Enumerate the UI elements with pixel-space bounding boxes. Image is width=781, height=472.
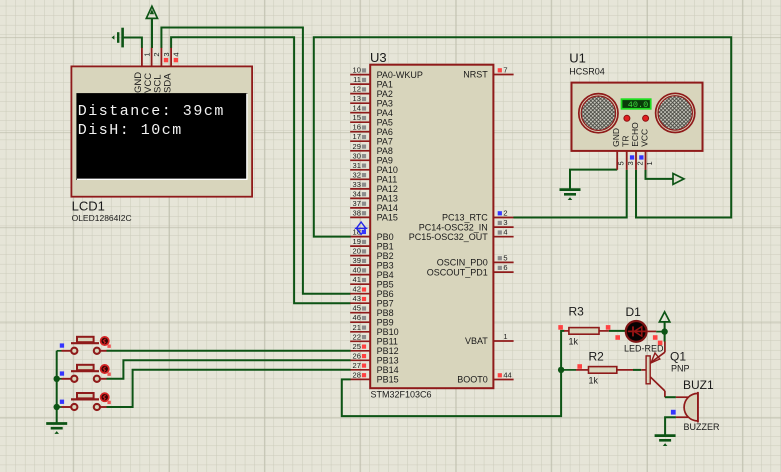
transistor Q1 (PNP) — [641, 342, 665, 398]
svg-text:PB12: PB12 — [377, 346, 399, 356]
LCD1 pin 2 VCC — [143, 48, 161, 93]
U1 right transducer — [656, 93, 695, 132]
U3 pin 32 (PA11) — [350, 170, 397, 184]
svg-text:3: 3 — [626, 161, 635, 165]
svg-text:PC15-OSC32_OUT: PC15-OSC32_OUT — [409, 232, 489, 242]
wire: LCD pin1 GND to ground symbol — [123, 38, 142, 49]
svg-text:PA7: PA7 — [377, 136, 393, 146]
U3 pin 39 (PB3) — [350, 256, 393, 270]
junction: button 2 tap on rail — [54, 376, 60, 382]
logic state square (BUZ1 input) — [671, 410, 676, 415]
power symbol +V (above D1/Q1 junction) — [659, 312, 669, 332]
svg-text:34: 34 — [353, 189, 361, 198]
svg-text:19: 19 — [353, 237, 361, 246]
svg-text:2: 2 — [635, 161, 644, 165]
svg-text:2: 2 — [152, 52, 161, 56]
svg-text:BUZ1: BUZ1 — [683, 378, 714, 392]
svg-text:32: 32 — [353, 170, 361, 179]
svg-text:1: 1 — [143, 52, 152, 56]
svg-text:29: 29 — [353, 142, 361, 151]
svg-text:D1: D1 — [626, 305, 642, 319]
U3 pin 7 (NRST) — [463, 66, 513, 80]
wire: button 1 to U3 PB12 (pin 25) — [107, 350, 351, 352]
svg-text:PB7: PB7 — [377, 298, 394, 308]
svg-text:40: 40 — [353, 266, 361, 275]
U3 pin 45 (PB8) — [350, 304, 393, 318]
svg-text:15: 15 — [353, 113, 361, 122]
svg-text:PA14: PA14 — [377, 203, 398, 213]
svg-text:PA5: PA5 — [377, 117, 393, 127]
svg-text:PA12: PA12 — [377, 184, 398, 194]
svg-text:PA6: PA6 — [377, 127, 393, 137]
U3 pin 46 (PB9) — [350, 313, 393, 327]
U3 pin 19 (PB1) — [350, 237, 393, 251]
svg-text:PB5: PB5 — [377, 279, 394, 289]
logic state square (R3 left) — [558, 325, 563, 330]
push button 3 — [57, 393, 111, 410]
logic state square (D1 left) — [615, 335, 620, 340]
svg-text:PB10: PB10 — [377, 327, 399, 337]
U3 pin 37 (PA14) — [350, 199, 398, 213]
U3 pin 25 (PB12) — [350, 342, 398, 356]
svg-text:3: 3 — [503, 218, 507, 227]
wire: HCSR04 VCC to power arrow — [646, 170, 674, 179]
svg-text:PA0-WKUP: PA0-WKUP — [377, 70, 423, 80]
svg-text:PNP: PNP — [671, 364, 690, 374]
svg-text:14: 14 — [353, 104, 361, 113]
svg-text:OLED12864I2C: OLED12864I2C — [72, 213, 132, 223]
U3 pin 2 (PC13_RTC) — [442, 209, 514, 223]
wire SCL: LCD pin3 to U3 PB6 (pin 42) — [161, 28, 350, 294]
svg-text:10: 10 — [353, 66, 361, 75]
junction: D1 / power / Q1 emitter — [661, 328, 667, 334]
ground (below HCSR04) — [560, 190, 581, 200]
svg-text:5: 5 — [503, 253, 507, 262]
svg-text:5: 5 — [617, 161, 626, 165]
svg-text:PA11: PA11 — [377, 175, 398, 185]
U3 pin 3 (PC14-OSC32_IN) — [419, 218, 514, 232]
svg-text:PB11: PB11 — [377, 337, 398, 347]
U3 pin 13 (PA3) — [350, 94, 393, 108]
svg-text:1: 1 — [645, 161, 654, 165]
wire SDA: LCD pin4 to U3 PB7 (pin 43) — [171, 37, 351, 303]
svg-text:27: 27 — [353, 361, 361, 370]
svg-text:PA1: PA1 — [377, 79, 393, 89]
svg-text:PB6: PB6 — [377, 289, 394, 299]
microcontroller U3 STM32F103C6 body — [370, 65, 493, 389]
svg-text:1k: 1k — [589, 376, 599, 386]
U3 pin 42 (PB6) — [350, 285, 393, 299]
svg-text:Distance: 39cm: Distance: 39cm — [78, 103, 225, 120]
junction: R2 tap on rail — [558, 367, 564, 373]
svg-text:43: 43 — [353, 294, 361, 303]
U3 pin 10 (PA0-WKUP) — [350, 66, 423, 80]
wire: R3 to D1 — [609, 330, 625, 332]
svg-text:22: 22 — [353, 332, 361, 341]
U3 pin 26 (PB13) — [350, 351, 398, 365]
U3 pin 14 (PA4) — [350, 104, 393, 118]
svg-text:PA9: PA9 — [377, 156, 393, 166]
U3 pin 1 (VBAT) — [465, 332, 514, 346]
svg-text:GND: GND — [611, 128, 621, 147]
wire ECHO net: HCSR04 ECHO to U3 PB0 (pin 18) — [314, 37, 731, 236]
svg-text:37: 37 — [353, 199, 361, 208]
svg-text:46: 46 — [353, 313, 361, 322]
U3 pin 33 (PA12) — [350, 180, 398, 194]
svg-text:PB13: PB13 — [377, 356, 399, 366]
wire: R2 to Q1 base — [633, 369, 641, 371]
U3 pin 11 (PA1) — [350, 75, 393, 89]
svg-text:2: 2 — [503, 209, 507, 218]
U3 pin 27 (PB14) — [350, 361, 398, 375]
svg-text:STM32F103C6: STM32F103C6 — [371, 390, 432, 400]
buzzer BUZ1 — [676, 392, 698, 423]
node marker (blue probe) on PB0 net — [355, 222, 368, 234]
ultrasonic sensor U1 HCSR04 body — [572, 83, 703, 151]
svg-text:3: 3 — [162, 52, 171, 56]
svg-text:13: 13 — [353, 94, 361, 103]
svg-text:PB1: PB1 — [377, 241, 394, 251]
svg-text:PB14: PB14 — [377, 365, 399, 375]
U3 pin 43 (PB7) — [350, 294, 393, 308]
svg-text:40.0: 40.0 — [628, 100, 648, 110]
LED D1 (LED-RED) — [626, 321, 647, 342]
svg-text:DisH: 10cm: DisH: 10cm — [78, 122, 183, 139]
svg-text:7: 7 — [503, 66, 507, 75]
ground (below BUZ1) — [655, 436, 676, 446]
svg-text:SDA: SDA — [162, 73, 173, 93]
svg-text:U1: U1 — [569, 51, 586, 66]
svg-text:R3: R3 — [569, 305, 585, 319]
wire: Q1 emitter to junction — [664, 332, 666, 342]
svg-text:33: 33 — [353, 180, 361, 189]
U3 pin 15 (PA5) — [350, 113, 393, 127]
wire: common button rail to ground — [56, 351, 58, 423]
svg-text:PC14-OSC32_IN: PC14-OSC32_IN — [419, 222, 488, 232]
logic state square (D1 lower right) — [658, 341, 663, 346]
U1 indicator LED right — [643, 115, 649, 121]
svg-text:1k: 1k — [569, 337, 579, 347]
svg-text:R2: R2 — [589, 350, 605, 364]
svg-text:16: 16 — [353, 123, 361, 132]
svg-text:21: 21 — [353, 323, 361, 332]
junction: button 3 tap on rail — [54, 404, 60, 410]
svg-text:BUZZER: BUZZER — [684, 422, 721, 432]
svg-text:HCSR04: HCSR04 — [569, 67, 605, 77]
svg-text:Q1: Q1 — [670, 350, 686, 364]
svg-text:PA10: PA10 — [377, 165, 398, 175]
U3 pin 16 (PA6) — [350, 123, 393, 137]
svg-text:OSCIN_PD0: OSCIN_PD0 — [437, 258, 488, 268]
U1 pin 3 (TR) — [621, 135, 635, 169]
svg-text:PA3: PA3 — [377, 98, 393, 108]
svg-text:U3: U3 — [370, 50, 387, 65]
OLED display LCD1 body — [71, 66, 252, 196]
power symbol +V (top, LCD VCC) — [146, 6, 157, 48]
svg-text:31: 31 — [353, 161, 361, 170]
ground (below buttons) — [46, 424, 67, 434]
U3 pin 38 (PA15) — [350, 208, 398, 222]
svg-text:NRST: NRST — [463, 70, 488, 80]
U3 pin 28 (PB15) — [350, 370, 398, 384]
U3 pin 30 (PA9) — [350, 151, 393, 165]
logic state square (D1 right) — [653, 335, 658, 340]
svg-text:12: 12 — [353, 85, 361, 94]
svg-text:45: 45 — [353, 304, 361, 313]
svg-text:6: 6 — [503, 263, 507, 272]
svg-text:28: 28 — [353, 370, 361, 379]
U3 pin 17 (PA7) — [350, 132, 393, 146]
U1 indicator LED left — [624, 115, 630, 121]
wire: D1 to power junction — [647, 330, 665, 332]
svg-text:44: 44 — [503, 371, 511, 380]
U3 pin 29 (PA8) — [350, 142, 393, 156]
svg-text:20: 20 — [353, 247, 361, 256]
wire: button 3 to U3 PB14 (pin 27) — [107, 370, 351, 407]
U3 pin 21 (PB10) — [350, 323, 398, 337]
resistor R3 — [564, 328, 609, 335]
svg-text:30: 30 — [353, 151, 361, 160]
wire TRIG net: U3 PC13_RTC (pin 2) to HCSR04 TR — [513, 170, 626, 218]
svg-text:ECHO: ECHO — [630, 122, 640, 147]
svg-text:42: 42 — [353, 285, 361, 294]
U3 pin 18 (PB0) — [350, 228, 393, 242]
wire: BUZ1 to ground — [665, 417, 676, 434]
svg-text:25: 25 — [353, 342, 361, 351]
svg-text:41: 41 — [353, 275, 361, 284]
U3 pin 20 (PB2) — [350, 247, 393, 261]
svg-text:BOOT0: BOOT0 — [457, 375, 488, 385]
push button 2 — [57, 365, 111, 382]
U1 pin 1 (VCC) — [640, 129, 654, 170]
svg-text:PB0: PB0 — [377, 232, 394, 242]
wire: button 2 to U3 PB13 (pin 26) — [107, 360, 351, 379]
svg-text:PB3: PB3 — [377, 260, 394, 270]
U3 pin 12 (PA2) — [350, 85, 393, 99]
svg-text:VCC: VCC — [640, 129, 650, 147]
svg-text:PA13: PA13 — [377, 194, 398, 204]
svg-text:PB4: PB4 — [377, 270, 394, 280]
svg-text:PB2: PB2 — [377, 251, 394, 261]
ground (top-left, rotated left, LCD GND) — [112, 28, 123, 48]
U3 pin 41 (PB5) — [350, 275, 393, 289]
svg-text:PB9: PB9 — [377, 317, 394, 327]
U1 left transducer — [579, 94, 618, 133]
svg-text:PA4: PA4 — [377, 108, 393, 118]
push button 1 — [57, 337, 111, 354]
svg-text:OSCOUT_PD1: OSCOUT_PD1 — [427, 267, 488, 277]
svg-text:PB15: PB15 — [377, 375, 399, 385]
svg-text:PA15: PA15 — [377, 213, 398, 223]
U1 pin 2 (ECHO) — [630, 122, 644, 170]
U1 distance display (40.0) — [622, 99, 651, 110]
svg-text:VBAT: VBAT — [465, 336, 488, 346]
svg-text:PB8: PB8 — [377, 308, 394, 318]
svg-text:38: 38 — [353, 208, 361, 217]
svg-text:26: 26 — [353, 351, 361, 360]
svg-text:PA2: PA2 — [377, 89, 393, 99]
U3 pin 34 (PA13) — [350, 189, 398, 203]
U3 pin 4 (PC15-OSC32_OUT) — [409, 228, 514, 242]
logic state square (R3 right) — [606, 325, 611, 330]
LCD1 pin 1 GND — [133, 48, 151, 93]
U3 pin 5 (OSCIN_PD0) — [437, 253, 514, 267]
LCD1 pin 4 SDA — [162, 48, 180, 93]
svg-text:11: 11 — [353, 75, 361, 84]
U3 pin 40 (PB4) — [350, 266, 393, 280]
U3 pin 6 (OSCOUT_PD1) — [427, 263, 514, 277]
wire: Q1 collector to BUZ1 — [665, 396, 676, 398]
svg-text:LCD1: LCD1 — [72, 199, 105, 214]
svg-text:39: 39 — [353, 256, 361, 265]
svg-text:PA8: PA8 — [377, 146, 393, 156]
logic state square (R2 left) — [577, 364, 582, 369]
svg-text:17: 17 — [353, 132, 361, 141]
svg-text:4: 4 — [172, 52, 181, 56]
svg-text:4: 4 — [503, 228, 507, 237]
svg-text:1: 1 — [503, 332, 507, 341]
LCD1 screen (black) with text — [76, 93, 247, 180]
wire: U3 PB15 (pin 28) to R3/R2 rail — [342, 331, 565, 416]
LCD1 pin 3 SCL — [153, 48, 171, 93]
wire: HCSR04 GND to ground — [570, 170, 617, 189]
U3 pin 22 (PB11) — [350, 332, 398, 346]
power symbol +V (right-pointing, HCSR04 VCC) — [673, 174, 684, 185]
U3 pin 44 (BOOT0) — [457, 371, 513, 385]
svg-text:PC13_RTC: PC13_RTC — [442, 213, 488, 223]
U3 pin 31 (PA10) — [350, 161, 398, 175]
U1 pin 5 (GND) — [611, 128, 625, 170]
resistor R2 — [561, 367, 633, 374]
